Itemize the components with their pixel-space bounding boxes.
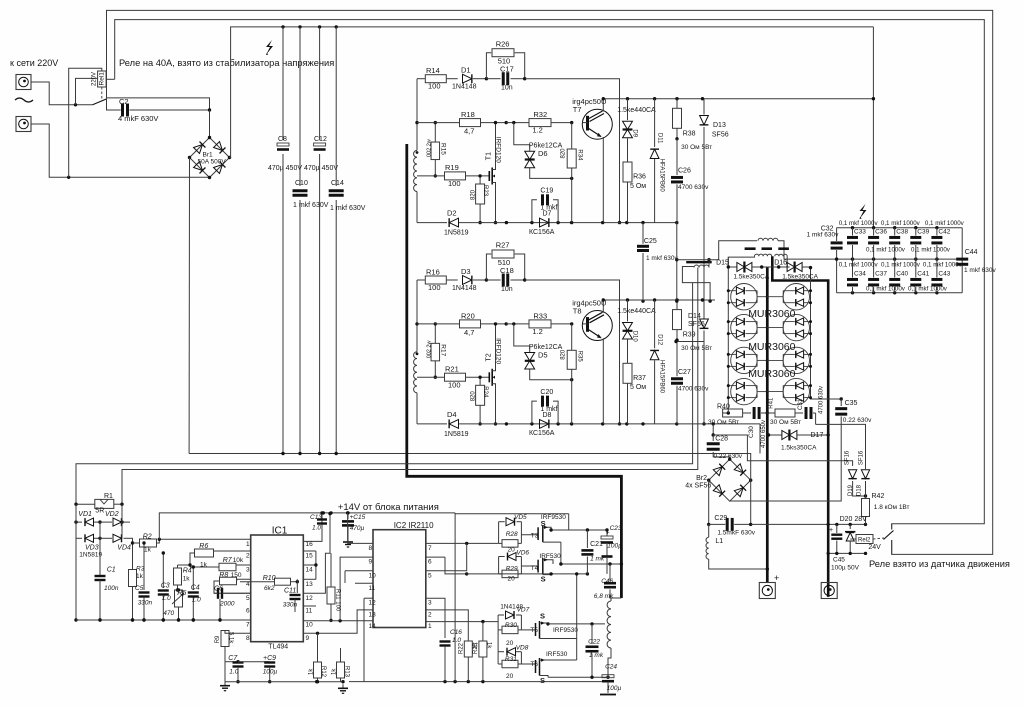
wire Br2 left corner down bbox=[707, 480, 710, 526]
svg-text:12: 12 bbox=[369, 600, 377, 607]
capacitor C42 bbox=[931, 228, 950, 259]
transistor T2 bbox=[486, 322, 502, 425]
svg-text:330n: 330n bbox=[138, 599, 153, 606]
svg-text:1k: 1k bbox=[183, 575, 191, 582]
capacitor C31 bbox=[798, 386, 825, 424]
svg-text:R42: R42 bbox=[872, 493, 885, 500]
wire D19 feed bbox=[713, 435, 852, 466]
resistor R25 bbox=[473, 622, 492, 682]
svg-text:к сети 220V: к сети 220V bbox=[10, 58, 58, 68]
igbt transistor T8 bbox=[572, 299, 612, 424]
svg-text:20: 20 bbox=[508, 576, 516, 583]
svg-text:6: 6 bbox=[246, 608, 250, 615]
wire pin9 to ir pin13 bbox=[303, 610, 373, 635]
svg-text:1N5819: 1N5819 bbox=[79, 551, 102, 558]
svg-text:100µ: 100µ bbox=[263, 669, 278, 676]
IC chip IC1 TL494 bbox=[246, 525, 313, 650]
resistor R42 bbox=[862, 493, 910, 525]
diode D4 bbox=[444, 410, 469, 438]
svg-text:4 mkF 630V: 4 mkF 630V bbox=[118, 114, 158, 123]
ac tilde symbol bbox=[15, 98, 33, 102]
svg-text:D16: D16 bbox=[774, 260, 787, 267]
svg-text:C38: C38 bbox=[896, 229, 908, 236]
svg-text:4700 650v: 4700 650v bbox=[761, 420, 767, 448]
svg-text:1.2: 1.2 bbox=[532, 126, 542, 135]
resistor R28 bbox=[499, 522, 522, 554]
wire ground rail bbox=[76, 618, 251, 621]
wire pin3 to C16 bbox=[426, 598, 445, 638]
svg-text:9: 9 bbox=[369, 559, 373, 566]
transistor T6 IRF530 bbox=[521, 651, 576, 685]
svg-text:T3: T3 bbox=[531, 533, 539, 540]
svg-text:КС156А: КС156А bbox=[529, 430, 555, 437]
terminal X2 bbox=[16, 117, 31, 132]
svg-text:100µ: 100µ bbox=[607, 685, 622, 692]
svg-text:R6: R6 bbox=[199, 543, 208, 550]
svg-text:1N5819: 1N5819 bbox=[444, 230, 469, 237]
resistor R39 bbox=[673, 300, 713, 352]
svg-text:C41: C41 bbox=[917, 271, 929, 278]
svg-text:1k: 1k bbox=[332, 668, 338, 675]
wire relay coil right bbox=[106, 78, 115, 80]
resistor R13 bbox=[332, 648, 350, 682]
capacitor C43 bbox=[931, 259, 950, 293]
svg-text:R3: R3 bbox=[136, 566, 145, 573]
inductor L1 bbox=[706, 524, 769, 570]
svg-text:0,1 mkf 1000v: 0,1 mkf 1000v bbox=[839, 220, 879, 227]
transistor T3 IRF9530 bbox=[521, 514, 566, 542]
svg-text:IRF530: IRF530 bbox=[546, 651, 568, 658]
tvs diode D5tvs bbox=[514, 324, 574, 382]
svg-text:10n: 10n bbox=[501, 286, 513, 293]
svg-text:IRFD120: IRFD120 bbox=[495, 137, 502, 163]
svg-text:Реле взято из датчика движения: Реле взято из датчика движения bbox=[869, 559, 1010, 569]
svg-text:20: 20 bbox=[506, 673, 514, 680]
svg-text:R22: R22 bbox=[459, 642, 465, 654]
svg-text:R38: R38 bbox=[683, 130, 696, 137]
resistor R1 bbox=[74, 493, 123, 515]
resistor R26 bbox=[486, 39, 524, 78]
svg-text:D10: D10 bbox=[632, 331, 638, 343]
svg-text:100µ 50V: 100µ 50V bbox=[831, 565, 860, 572]
svg-text:T8: T8 bbox=[573, 307, 582, 316]
svg-text:VD8: VD8 bbox=[516, 644, 529, 651]
svg-text:5R: 5R bbox=[95, 508, 104, 515]
svg-text:L1: L1 bbox=[715, 538, 723, 545]
svg-text:820: 820 bbox=[561, 148, 567, 159]
capacitor C26 bbox=[671, 139, 709, 223]
capacitor C28 bbox=[707, 424, 743, 460]
wire bottom rail stage T8 bbox=[417, 422, 679, 425]
wire pin5 line bbox=[426, 543, 467, 570]
wire bank top rail bbox=[837, 226, 963, 293]
transistor T5 IRF9530 bbox=[521, 612, 578, 639]
svg-text:0,1 mkf 1000v: 0,1 mkf 1000v bbox=[881, 261, 921, 268]
svg-text:13: 13 bbox=[306, 581, 314, 588]
svg-text:10: 10 bbox=[306, 622, 314, 629]
wire link to ir pin9 bbox=[340, 557, 373, 621]
svg-text:R26: R26 bbox=[496, 39, 510, 48]
capacitor C1 bbox=[95, 567, 119, 622]
bridge rectifier Br2 bbox=[685, 458, 752, 502]
svg-text:1k: 1k bbox=[309, 668, 315, 675]
svg-text:100: 100 bbox=[448, 380, 461, 389]
resistor R16 bbox=[417, 268, 446, 293]
wire mur right rail bbox=[811, 268, 843, 401]
svg-text:R1: R1 bbox=[104, 493, 113, 500]
svg-text:1.0: 1.0 bbox=[452, 637, 461, 644]
svg-text:HFA15PB60: HFA15PB60 bbox=[658, 159, 664, 193]
svg-text:C16: C16 bbox=[450, 629, 462, 636]
diode D2 bbox=[444, 209, 469, 237]
svg-text:IRF530: IRF530 bbox=[539, 553, 561, 560]
resistor R14 bbox=[417, 66, 446, 91]
diode D14 bbox=[674, 313, 708, 426]
svg-text:24V: 24V bbox=[868, 544, 881, 551]
wire pin11 stub bbox=[303, 605, 316, 607]
svg-text:T6: T6 bbox=[530, 661, 538, 668]
wire collector rail stage T8 bbox=[602, 298, 715, 301]
terminal output minus bbox=[821, 583, 837, 599]
svg-text:R29: R29 bbox=[506, 565, 518, 572]
svg-text:1: 1 bbox=[428, 623, 432, 630]
svg-text:1.0: 1.0 bbox=[229, 669, 238, 676]
svg-text:C2: C2 bbox=[119, 97, 129, 106]
svg-text:R12: R12 bbox=[320, 666, 326, 678]
transformer secondary winding A bbox=[728, 254, 771, 267]
svg-text:C45: C45 bbox=[833, 557, 845, 564]
pulse transformer winding stage T7 bbox=[414, 150, 419, 222]
resistor R33 bbox=[506, 311, 573, 336]
svg-text:9: 9 bbox=[306, 635, 310, 642]
tvs diode D10tvs bbox=[617, 300, 656, 364]
tvs diode D16 bbox=[774, 260, 818, 281]
svg-text:R31: R31 bbox=[505, 656, 517, 663]
resistor R30 bbox=[498, 615, 521, 647]
transistor T4 IRF530 bbox=[521, 553, 561, 584]
wire bridge plus to bus bbox=[230, 27, 874, 158]
svg-text:0,1 mkf 1000v: 0,1 mkf 1000v bbox=[866, 246, 906, 253]
text MUR3060 labels bbox=[748, 308, 795, 380]
capacitor C45 bbox=[829, 524, 860, 571]
capacitor C38 bbox=[889, 228, 908, 259]
svg-text:S: S bbox=[540, 676, 545, 685]
svg-text:SF56: SF56 bbox=[712, 132, 729, 139]
svg-text:Rel1: Rel1 bbox=[99, 72, 106, 86]
wire C2 loop bbox=[107, 98, 212, 112]
svg-text:IRFD120: IRFD120 bbox=[495, 338, 502, 364]
diode VD1 bbox=[74, 511, 101, 526]
svg-text:1 mkf 630V: 1 mkf 630V bbox=[293, 202, 329, 209]
svg-text:D19: D19 bbox=[848, 484, 854, 496]
svg-text:C37: C37 bbox=[875, 271, 887, 278]
wire pin1 feed bbox=[426, 620, 498, 623]
svg-text:R4: R4 bbox=[183, 567, 192, 574]
svg-text:R15: R15 bbox=[440, 143, 447, 155]
svg-text:C36: C36 bbox=[875, 229, 887, 236]
svg-text:0,1 mkf 1000v: 0,1 mkf 1000v bbox=[908, 285, 948, 292]
dual diode MUR3060 left 3 bbox=[727, 347, 769, 373]
terminal output plus bbox=[759, 573, 779, 599]
ground symbol left bbox=[220, 682, 230, 691]
resistor R20 bbox=[417, 311, 508, 337]
dual diode MUR3060 right 4 bbox=[767, 378, 812, 404]
svg-text:C8: C8 bbox=[278, 136, 287, 143]
svg-text:D15: D15 bbox=[716, 260, 729, 267]
svg-text:002 2w: 002 2w bbox=[426, 341, 432, 359]
capacitor C20 bbox=[532, 389, 558, 424]
svg-text:VD3: VD3 bbox=[85, 544, 99, 551]
text 14v supply bbox=[338, 502, 439, 513]
resistor R17 bbox=[426, 322, 446, 379]
bridge rectifier Br1 bbox=[188, 136, 231, 179]
svg-text:R9: R9 bbox=[215, 635, 221, 643]
svg-text:12: 12 bbox=[306, 595, 314, 602]
text mains label bbox=[10, 58, 58, 68]
svg-text:14: 14 bbox=[369, 623, 377, 630]
svg-text:T4: T4 bbox=[531, 565, 539, 572]
wire bridge minus down bbox=[188, 158, 190, 454]
resistor R24 bbox=[471, 376, 489, 426]
zener diode D7 bbox=[529, 211, 555, 236]
capacitor C39 bbox=[910, 228, 929, 259]
svg-text:S: S bbox=[540, 612, 545, 621]
svg-text:D13: D13 bbox=[713, 122, 726, 129]
transformer core bbox=[745, 247, 789, 250]
capacitor C13 bbox=[303, 511, 327, 541]
terminal X1 bbox=[16, 75, 31, 90]
svg-text:SF56: SF56 bbox=[688, 321, 705, 328]
svg-text:4,7: 4,7 bbox=[464, 127, 474, 136]
resistor R29 bbox=[499, 557, 522, 583]
svg-text:C7: C7 bbox=[228, 655, 238, 662]
capacitor C21 bbox=[581, 530, 605, 574]
inductor L2 bbox=[758, 238, 837, 259]
resistor R10 bbox=[240, 575, 299, 592]
svg-text:0,1 mkf 1000v: 0,1 mkf 1000v bbox=[925, 220, 965, 227]
svg-text:D2: D2 bbox=[447, 209, 457, 218]
resistor R3 bbox=[129, 538, 145, 621]
zener diode D20 bbox=[840, 516, 868, 553]
svg-text:Br2: Br2 bbox=[696, 475, 707, 482]
svg-text:1.5ke350CA: 1.5ke350CA bbox=[782, 273, 818, 280]
capacitor C10 bbox=[292, 180, 329, 209]
wire center tap thick bbox=[772, 256, 828, 597]
svg-text:+14V от блока питания: +14V от блока питания bbox=[338, 502, 439, 513]
svg-text:4x SF56: 4x SF56 bbox=[685, 483, 711, 490]
svg-text:C24: C24 bbox=[605, 663, 617, 670]
wire C10 branch bbox=[299, 27, 301, 454]
svg-text:8: 8 bbox=[369, 545, 373, 552]
svg-text:470µ 450V: 470µ 450V bbox=[304, 165, 338, 172]
wire snubber row bbox=[728, 399, 775, 413]
svg-text:D4: D4 bbox=[447, 410, 457, 419]
resistor R11 bbox=[327, 553, 341, 622]
svg-text:C31: C31 bbox=[798, 398, 804, 410]
svg-text:R13: R13 bbox=[344, 666, 350, 678]
svg-text:11: 11 bbox=[306, 608, 313, 615]
svg-text:7: 7 bbox=[246, 622, 250, 629]
resistor R35 bbox=[561, 324, 583, 424]
svg-text:1k: 1k bbox=[136, 573, 144, 580]
svg-text:D17: D17 bbox=[811, 432, 824, 439]
svg-text:C40: C40 bbox=[896, 271, 908, 278]
svg-text:220V: 220V bbox=[92, 72, 98, 86]
svg-text:C26: C26 bbox=[678, 168, 691, 175]
resistor R31 bbox=[498, 652, 521, 680]
resistor R19 bbox=[417, 163, 489, 188]
svg-text:R25: R25 bbox=[473, 642, 479, 654]
svg-text:SF16: SF16 bbox=[859, 450, 865, 465]
svg-text:R7: R7 bbox=[223, 557, 233, 564]
tvs diode D9tvs bbox=[617, 99, 656, 163]
node bus dots bbox=[281, 25, 338, 28]
svg-text:MUR3060: MUR3060 bbox=[748, 341, 795, 353]
capacitor C32 bbox=[807, 226, 843, 249]
wire vcc drop to R11 bbox=[303, 512, 331, 593]
resistor R15 bbox=[426, 121, 446, 178]
wire thick primary loop bbox=[407, 144, 622, 598]
svg-text:R14: R14 bbox=[426, 66, 440, 75]
resistor R27 bbox=[486, 241, 524, 280]
wire mur left rail bbox=[727, 257, 729, 399]
capacitor C25 bbox=[637, 223, 679, 303]
wire inner top rail bbox=[115, 20, 985, 530]
svg-text:C17: C17 bbox=[500, 65, 514, 74]
wire pin10 to ir pin14 bbox=[303, 619, 373, 622]
svg-text:C46: C46 bbox=[601, 578, 613, 585]
capacitor C33 bbox=[847, 228, 866, 259]
wire left rail stage T8 bbox=[415, 280, 418, 352]
svg-text:TL494: TL494 bbox=[268, 643, 288, 650]
svg-text:D6: D6 bbox=[538, 149, 548, 158]
diode VD3 bbox=[76, 534, 102, 558]
svg-text:D1: D1 bbox=[461, 66, 471, 75]
capacitor C12 bbox=[304, 136, 338, 172]
svg-text:1k: 1k bbox=[144, 547, 152, 554]
svg-text:R37: R37 bbox=[633, 375, 646, 382]
svg-text:C28: C28 bbox=[715, 436, 728, 443]
svg-text:Реле на 40А, взято из стабилиз: Реле на 40А, взято из стабилизатора напр… bbox=[119, 58, 334, 68]
capacitor C23 bbox=[601, 525, 622, 574]
svg-text:VD4: VD4 bbox=[117, 544, 131, 551]
svg-text:S: S bbox=[541, 575, 546, 584]
svg-text:C18: C18 bbox=[500, 266, 514, 275]
capacitor C29 bbox=[709, 480, 756, 536]
svg-text:VD7: VD7 bbox=[517, 607, 530, 614]
svg-text:C23: C23 bbox=[610, 525, 622, 532]
diode D11 bbox=[650, 99, 664, 223]
svg-text:R16: R16 bbox=[426, 268, 440, 277]
svg-text:D12: D12 bbox=[657, 334, 663, 346]
svg-text:C25: C25 bbox=[644, 238, 657, 245]
svg-text:470: 470 bbox=[163, 610, 174, 617]
svg-text:4700 630v: 4700 630v bbox=[819, 386, 825, 414]
transformer secondary winding B bbox=[775, 254, 790, 267]
wire pin12 link bbox=[364, 598, 373, 682]
svg-text:C19: C19 bbox=[540, 188, 553, 195]
svg-text:10k: 10k bbox=[233, 557, 244, 564]
wire pin11 stub bbox=[355, 582, 373, 584]
svg-text:T2: T2 bbox=[486, 353, 493, 361]
diode VD6 bbox=[499, 549, 530, 574]
svg-text:VD5: VD5 bbox=[514, 514, 527, 521]
svg-text:C39: C39 bbox=[917, 229, 929, 236]
capacitor C34 bbox=[847, 259, 866, 293]
switch relay contact bbox=[884, 524, 894, 555]
wire pin6 feed bbox=[445, 557, 468, 576]
svg-text:SF16: SF16 bbox=[844, 450, 850, 465]
svg-text:330n: 330n bbox=[283, 602, 298, 609]
svg-text:+: + bbox=[829, 527, 833, 534]
capacitor C6 bbox=[214, 586, 251, 622]
lightning symbol top bbox=[266, 40, 273, 55]
wire negative bus bbox=[189, 452, 750, 455]
svg-text:0,1 mkf 1000v: 0,1 mkf 1000v bbox=[839, 261, 879, 268]
svg-text:6: 6 bbox=[428, 559, 432, 566]
svg-text:C13: C13 bbox=[310, 514, 322, 521]
svg-text:1N4148: 1N4148 bbox=[452, 285, 477, 292]
wire C14 branch bbox=[335, 27, 337, 454]
capacitor C9 bbox=[238, 655, 278, 683]
lightning symbol bank bbox=[860, 204, 867, 219]
svg-text:470µ 450V: 470µ 450V bbox=[268, 165, 302, 172]
svg-text:R10: R10 bbox=[263, 575, 276, 582]
wire half bridge 2 bbox=[546, 572, 609, 679]
svg-text:C33: C33 bbox=[854, 229, 866, 236]
svg-text:C22: C22 bbox=[588, 639, 600, 646]
svg-text:100: 100 bbox=[428, 82, 441, 91]
svg-text:820: 820 bbox=[471, 391, 477, 402]
svg-text:MUR3060: MUR3060 bbox=[748, 368, 795, 380]
svg-text:0,1 mkf 1000v: 0,1 mkf 1000v bbox=[881, 220, 921, 227]
svg-text:C43: C43 bbox=[938, 271, 950, 278]
capacitor C35 bbox=[730, 399, 872, 501]
svg-text:820: 820 bbox=[471, 189, 477, 200]
svg-text:6k2: 6k2 bbox=[264, 585, 275, 592]
svg-text:1 mkf 630V: 1 mkf 630V bbox=[330, 205, 366, 212]
capacitor C15 bbox=[342, 511, 366, 547]
capacitor C41 bbox=[910, 259, 929, 293]
igbt transistor T7 bbox=[572, 97, 612, 222]
svg-text:3: 3 bbox=[428, 600, 432, 607]
svg-text:30 Ом 5Вт: 30 Ом 5Вт bbox=[708, 419, 739, 426]
svg-text:D7: D7 bbox=[543, 211, 552, 218]
svg-text:1 mkf 630v: 1 mkf 630v bbox=[807, 232, 840, 239]
svg-text:R23: R23 bbox=[482, 185, 488, 197]
svg-text:0.22 630v: 0.22 630v bbox=[843, 417, 872, 424]
capacitor C37 bbox=[868, 259, 887, 293]
resistor R34 bbox=[561, 123, 583, 223]
svg-text:C35: C35 bbox=[845, 400, 858, 407]
diode D18 bbox=[857, 424, 870, 498]
svg-text:3: 3 bbox=[246, 567, 250, 574]
svg-text:1.5mkF 630v: 1.5mkF 630v bbox=[717, 529, 755, 536]
dual diode MUR3060 right 1 bbox=[767, 284, 812, 310]
svg-text:1.5ke350CA: 1.5ke350CA bbox=[733, 273, 769, 280]
capacitor C19 bbox=[532, 188, 558, 223]
resistor R9 bbox=[215, 630, 251, 662]
svg-text:R36: R36 bbox=[633, 174, 646, 181]
svg-text:R19: R19 bbox=[445, 163, 459, 172]
resistor R38 bbox=[673, 99, 713, 151]
transistor T1 bbox=[486, 121, 502, 224]
svg-text:HFA15PB60: HFA15PB60 bbox=[658, 360, 664, 394]
svg-text:R39: R39 bbox=[683, 332, 696, 339]
svg-text:1.0: 1.0 bbox=[192, 597, 201, 604]
svg-text:30 Ом 5Вт: 30 Ом 5Вт bbox=[681, 345, 712, 352]
svg-text:8: 8 bbox=[246, 635, 250, 642]
